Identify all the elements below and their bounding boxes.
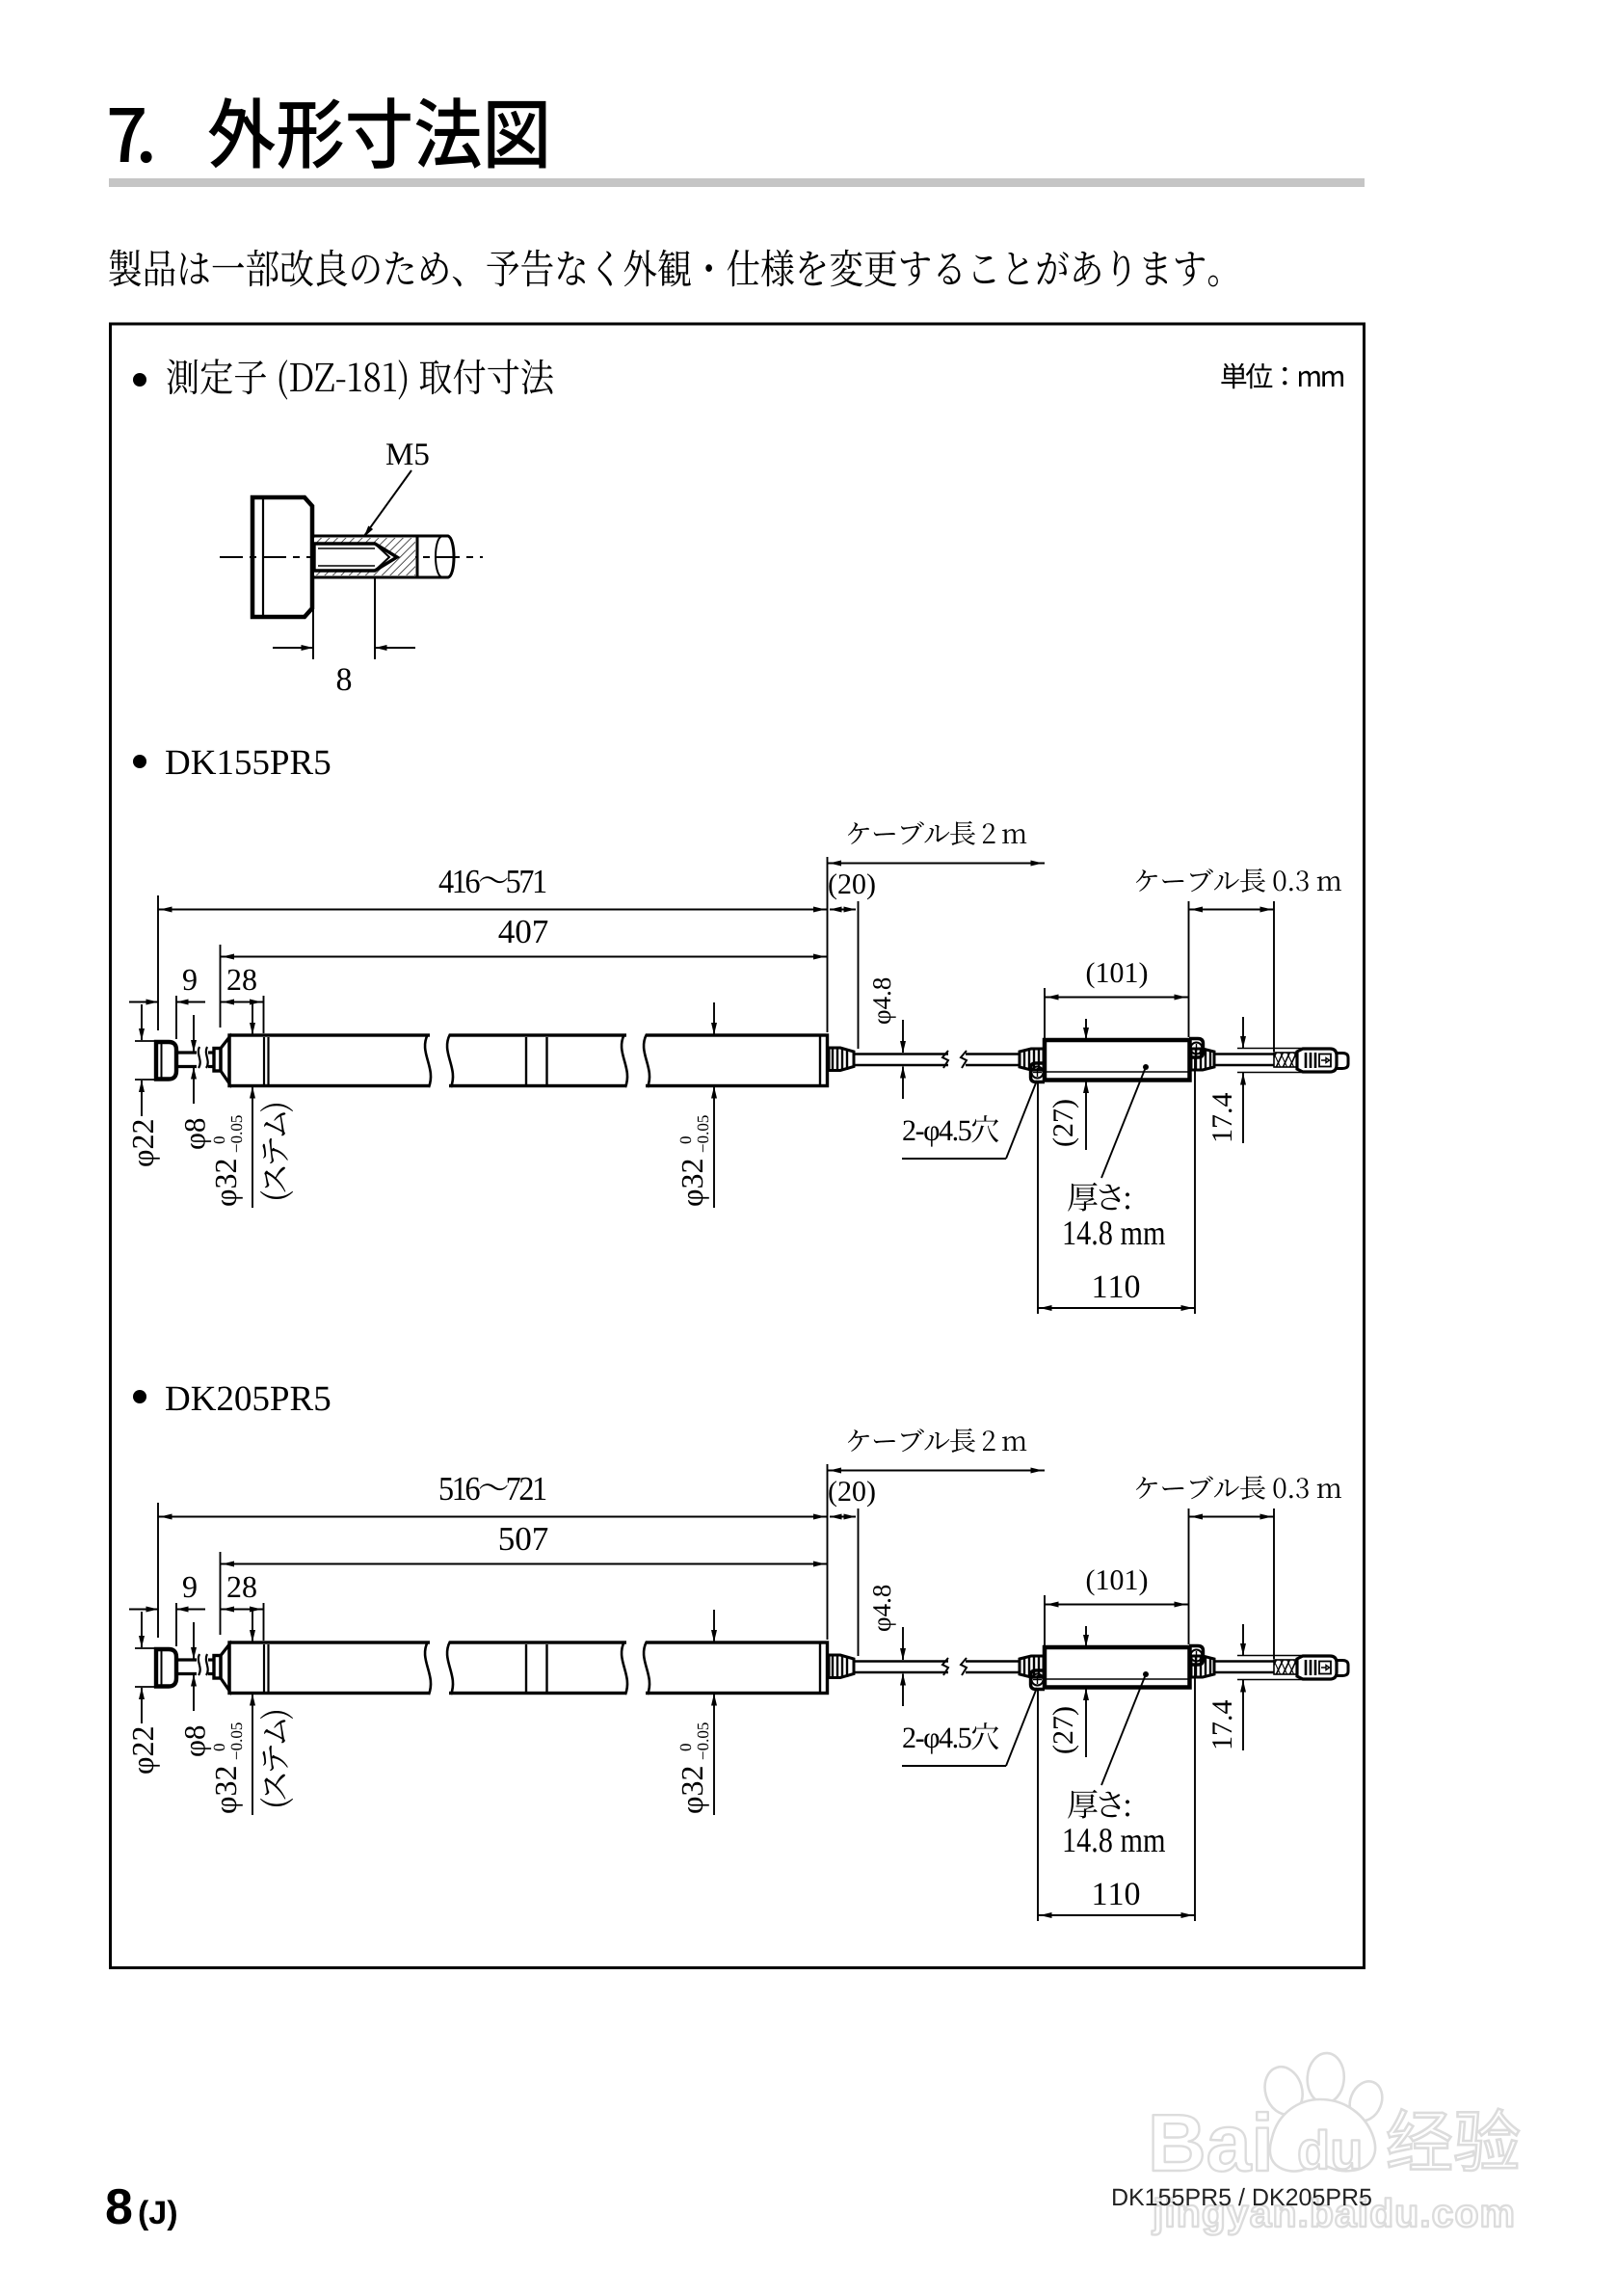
- box lug bottom-left: [1031, 1670, 1046, 1690]
- box lug top-right: [1189, 1646, 1204, 1666]
- dim body length: [500, 1528, 548, 1551]
- connector tip: [1337, 1661, 1348, 1676]
- box strain relief right: [1191, 1049, 1214, 1070]
- cable phi4.8: [854, 1660, 948, 1663]
- body joint lines: [525, 1037, 527, 1084]
- stylus shaft: [312, 536, 417, 577]
- dim phi22: [133, 1727, 160, 1774]
- dim 8 stylus: [312, 588, 314, 659]
- probe body phi32: [229, 1642, 828, 1694]
- body end cap: [819, 1036, 821, 1085]
- dim phi32 right: [680, 1115, 709, 1206]
- dim phi4.8: [873, 1586, 896, 1631]
- front cone: [221, 1037, 229, 1083]
- stylus centerline: [220, 556, 483, 558]
- gray rule under title: [109, 178, 1365, 187]
- output cable: [1214, 1660, 1274, 1663]
- dim phi22: [133, 1120, 160, 1166]
- output cable: [1214, 1053, 1274, 1055]
- box strain relief left: [1020, 1049, 1044, 1070]
- frame box: [111, 324, 1365, 1968]
- dim 9: [183, 970, 197, 991]
- dim phi32 right: [680, 1722, 709, 1813]
- stylus rod: [417, 536, 454, 577]
- connector tip: [1337, 1054, 1348, 1069]
- bullet DK155PR5: [133, 755, 146, 768]
- section title 7. gaikei sunpouzu: [110, 108, 152, 163]
- probe strain relief: [829, 1048, 854, 1071]
- spindle phi8: [177, 1658, 197, 1661]
- cable phi4.8: [854, 1053, 948, 1055]
- body break marks: [430, 1639, 449, 1696]
- dim 9: [183, 1577, 197, 1598]
- unit label: [1221, 363, 1343, 389]
- page number: [107, 2189, 132, 2225]
- label 2-phi4.5 holes: [903, 1722, 998, 1754]
- dim cable 0.3m: [1136, 1476, 1341, 1501]
- dim phi32 stem: [214, 1115, 243, 1206]
- dim cable 2m: [848, 1428, 1026, 1454]
- probe strain relief: [829, 1655, 854, 1678]
- label M5: [386, 443, 429, 465]
- bullet stylus heading: [133, 373, 146, 387]
- dim cable 2m: [848, 821, 1026, 846]
- dim 20: [829, 873, 874, 899]
- body joint lines: [525, 1644, 527, 1692]
- bullet DK205PR5: [133, 1390, 146, 1403]
- dim phi32 stem: [214, 1722, 243, 1813]
- dim 110: [1095, 1882, 1140, 1905]
- label thickness: [1068, 1790, 1129, 1819]
- baidu watermark: [1153, 2112, 1268, 2172]
- dim phi8: [185, 1726, 211, 1756]
- tip boot: [214, 1656, 221, 1679]
- intro sentence: [109, 250, 1218, 287]
- probe tip contact cap phi22: [156, 1042, 176, 1080]
- dim 17.4: [1212, 1700, 1232, 1748]
- body break marks: [430, 1031, 449, 1089]
- dim 28: [227, 970, 255, 991]
- box strain relief right: [1191, 1656, 1214, 1677]
- dim 27: [1052, 1100, 1078, 1145]
- cable spring: [1274, 1053, 1297, 1067]
- front cone: [221, 1644, 229, 1691]
- label 2-phi4.5 holes: [903, 1115, 998, 1147]
- body end cap: [819, 1643, 821, 1693]
- dim phi8: [185, 1119, 211, 1149]
- interface box: [1045, 1040, 1190, 1081]
- dim 20: [829, 1481, 874, 1507]
- dim overall length: [439, 870, 546, 894]
- probe tip contact cap phi22: [156, 1649, 176, 1687]
- tip boot: [214, 1049, 221, 1072]
- probe body phi32: [229, 1035, 828, 1086]
- box strain relief left: [1020, 1656, 1044, 1677]
- dim cable 0.3m: [1136, 868, 1341, 894]
- interface box: [1045, 1647, 1190, 1688]
- dim 101: [1087, 962, 1147, 988]
- dim 27: [1052, 1707, 1078, 1752]
- tapped hole M5: [314, 544, 397, 571]
- dim 28: [227, 1577, 255, 1598]
- connector body: [1297, 1049, 1337, 1072]
- spindle phi8: [177, 1051, 197, 1054]
- dim 110: [1095, 1275, 1140, 1297]
- cable spring: [1274, 1660, 1297, 1674]
- box lug top-right: [1189, 1039, 1204, 1058]
- dim 17.4: [1212, 1093, 1232, 1140]
- dim overall length: [440, 1478, 545, 1501]
- dim 101: [1087, 1569, 1147, 1595]
- connector body: [1297, 1656, 1337, 1679]
- box lug bottom-left: [1031, 1063, 1046, 1082]
- dim body length: [499, 921, 548, 944]
- footer model names: [1113, 2188, 1371, 2205]
- label thickness: [1068, 1183, 1129, 1212]
- dim phi4.8: [873, 978, 896, 1024]
- baidu paw: [1259, 2052, 1388, 2172]
- stylus knob: [252, 497, 312, 617]
